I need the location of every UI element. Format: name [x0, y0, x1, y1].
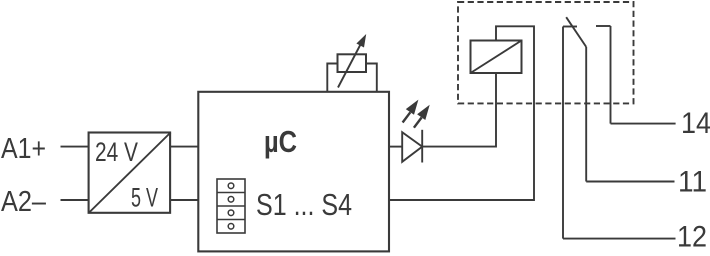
svg-text:µC: µC — [264, 124, 297, 159]
svg-text:A2–: A2– — [1, 186, 47, 218]
svg-text:S1 ... S4: S1 ... S4 — [256, 187, 352, 222]
svg-text:24 V: 24 V — [95, 137, 138, 167]
wire A1 to converter — [61, 146, 90, 148]
svg-text:11: 11 — [678, 165, 707, 198]
wire coil top loop to uC (drive return) — [389, 26, 534, 200]
label S1 ... S4 — [256, 187, 352, 222]
relay contact: movable blade (common, to 11) — [566, 17, 586, 181]
wire uC to LED — [389, 146, 402, 148]
svg-text:5 V: 5 V — [131, 183, 158, 213]
DIP switch S1...S4 — [217, 179, 245, 233]
svg-text:A1+: A1+ — [1, 133, 46, 165]
wire terminal 14 — [611, 123, 676, 125]
dc-dc converter U1 24V/5V — [89, 133, 171, 214]
relay contact: NC fixed contact (to 12) — [563, 27, 577, 239]
node 11 — [678, 165, 707, 198]
svg-text:14: 14 — [681, 107, 710, 140]
wire converter to uC (5V rail) — [171, 199, 199, 201]
relay coil K1 — [471, 41, 522, 74]
wire terminal 11 — [586, 181, 674, 183]
node 14 — [681, 107, 710, 140]
node A2- — [1, 186, 47, 218]
wire LED to relay coil — [422, 73, 496, 147]
wire terminal 12 — [563, 238, 676, 240]
node 12 — [677, 220, 707, 253]
microcontroller U2 — [198, 92, 389, 252]
dashed relay enclosure — [458, 2, 634, 103]
wire converter to uC (24V rail) — [171, 146, 199, 148]
relay contact: NO fixed contact (to 14) — [596, 26, 611, 124]
svg-text:12: 12 — [677, 220, 707, 253]
node A1+ — [1, 133, 46, 165]
LED D1 — [402, 100, 429, 163]
potentiometer RP (trimmer on top of uC) — [327, 34, 377, 92]
wire A2 to converter — [61, 199, 90, 201]
